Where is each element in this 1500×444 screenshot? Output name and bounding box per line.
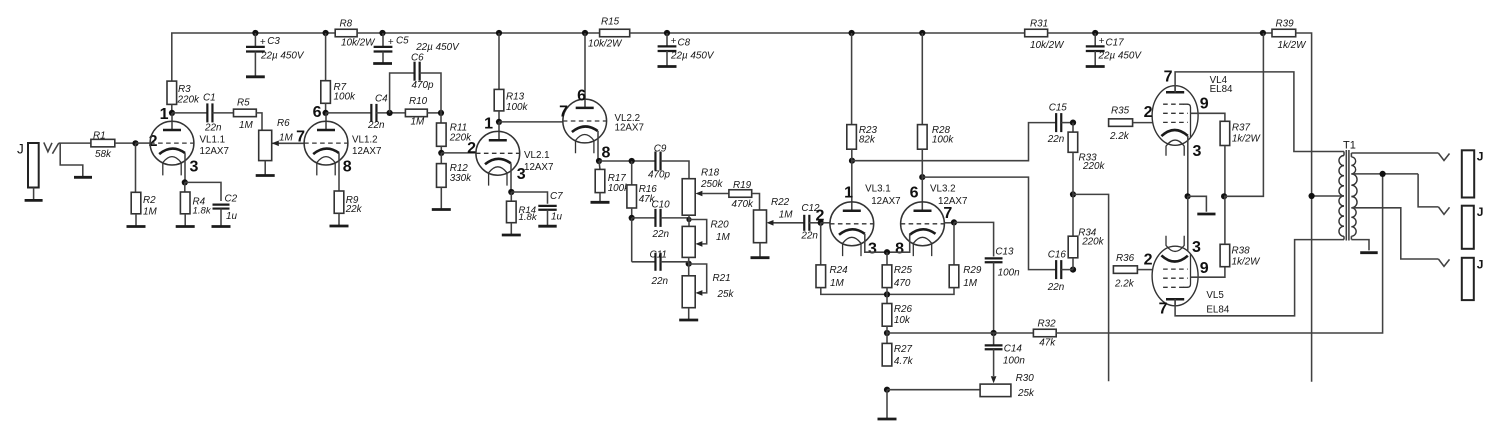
ground under R14 [502, 223, 521, 235]
svg-text:1k/2W: 1k/2W [1278, 40, 1308, 51]
svg-text:R21: R21 [713, 273, 731, 284]
resistor R37 [1220, 121, 1261, 145]
svg-text:J: J [1477, 257, 1484, 271]
svg-text:220k: 220k [1081, 236, 1104, 247]
svg-text:470p: 470p [648, 170, 670, 181]
triode VL1.1 [150, 113, 229, 175]
svg-text:7: 7 [1164, 69, 1173, 86]
capacitor C10 [632, 199, 670, 240]
wire cathode to C2 [185, 182, 221, 201]
pin 7 label VL5 [1159, 301, 1168, 318]
svg-text:C8: C8 [678, 37, 691, 48]
svg-text:R26: R26 [894, 304, 913, 315]
resistor R29 [949, 222, 982, 288]
svg-text:EL84: EL84 [1210, 84, 1233, 95]
wiper R22 to C12 [767, 220, 805, 226]
wire secondary tap 1 [1351, 173, 1418, 175]
wire node6 to C4 [326, 112, 372, 114]
wire R36 to VL5 grid [1137, 269, 1152, 271]
wiper R18 to R19 [695, 191, 729, 197]
svg-text:R35: R35 [1111, 105, 1130, 116]
svg-text:22µ 450V: 22µ 450V [260, 51, 305, 62]
svg-text:1M: 1M [963, 278, 977, 289]
svg-text:C6: C6 [411, 53, 424, 64]
node rail C17 [1092, 30, 1098, 36]
node rail R13 [496, 30, 502, 36]
wire rail segment 4 [1048, 32, 1272, 34]
resistor R16 [627, 161, 657, 208]
svg-text:100n: 100n [998, 268, 1020, 279]
resistor R2 [131, 143, 157, 217]
node rail screens feed [1260, 30, 1266, 36]
wire VL1.2 cathode [338, 153, 340, 191]
capacitor C11 [632, 249, 669, 287]
wire C13 to feedback node [993, 262, 995, 333]
svg-text:VL5: VL5 [1206, 290, 1224, 301]
resistor R31 (rail series) [1025, 18, 1065, 51]
triode VL1.2 [304, 113, 381, 175]
node rail R23 [849, 30, 855, 36]
jack sleeve wire to ground [60, 144, 83, 177]
resistor R7 [321, 33, 356, 113]
ground under C7 [538, 210, 556, 227]
ground under R17 [591, 193, 610, 203]
wire C4 to R10 junction [376, 112, 405, 114]
node 2 (VL3.1 grid) [816, 208, 825, 226]
node 1 (VL2.1 plate) [484, 116, 502, 133]
svg-text:6: 6 [910, 185, 919, 202]
svg-text:3: 3 [190, 159, 199, 176]
svg-text:C1: C1 [203, 92, 216, 103]
svg-text:10k/2W: 10k/2W [341, 38, 376, 49]
wire R1 to node 2 [115, 142, 136, 144]
tail bus wire [821, 288, 954, 295]
svg-text:25k: 25k [1017, 388, 1035, 399]
svg-text:1k/2W: 1k/2W [1232, 256, 1262, 267]
transformer T1 secondary winding [1351, 153, 1357, 240]
node C10/R18/R20 [686, 217, 691, 222]
svg-text:VL2.1: VL2.1 [524, 150, 550, 161]
node C9/R16 [629, 158, 635, 164]
wire C6 right leg [420, 73, 441, 113]
svg-text:100k: 100k [932, 134, 954, 145]
pin 8 label VL1.2 [343, 159, 352, 176]
divider stub wire (dead end) [1073, 194, 1109, 381]
wire VL4 plate to T1 primary top [1175, 72, 1344, 152]
svg-text:12AX7: 12AX7 [871, 196, 900, 207]
triode VL3.2 [901, 149, 968, 256]
svg-text:VL1.1: VL1.1 [200, 135, 226, 146]
wire R39 to T1 center tap [1296, 33, 1312, 382]
resistor R17 [595, 161, 630, 194]
svg-text:R3: R3 [178, 84, 191, 95]
pin 3 label VL4 [1193, 143, 1202, 160]
wire node2 to VL3.1 grid [821, 222, 830, 224]
wire R37 to junction [1224, 146, 1226, 197]
ground under C17 [1086, 65, 1105, 68]
pin 6 label VL2.2 [577, 88, 586, 105]
svg-text:82k: 82k [859, 134, 876, 145]
node R20/R21/C11 [686, 261, 692, 267]
feedback wire R32 to secondary tap [1056, 174, 1382, 333]
capacitor C7 [538, 191, 563, 223]
svg-text:C4: C4 [375, 94, 388, 105]
svg-text:C13: C13 [995, 247, 1014, 258]
node C10 left [629, 215, 635, 221]
svg-text:VL3.1: VL3.1 [865, 184, 891, 195]
wiper R21 return [689, 264, 707, 296]
svg-text:22µ 450V: 22µ 450V [670, 51, 715, 62]
resistor R5 [234, 97, 257, 131]
output jack 2 contact [1438, 207, 1449, 214]
resistor R13 [494, 33, 528, 122]
wire VL1.1 cathode [184, 153, 186, 182]
svg-text:2.2k: 2.2k [1114, 278, 1135, 289]
node VL2.1 cathode [508, 189, 514, 195]
resistor R25 [882, 252, 912, 289]
svg-text:220k: 220k [1082, 161, 1105, 172]
wire VL5 cathode up [1187, 196, 1189, 251]
svg-text:470p: 470p [412, 80, 434, 91]
ground under R2 [127, 214, 146, 227]
resistor R28 [918, 33, 955, 149]
output jack 2 connector [1462, 205, 1484, 249]
node rail R28 [919, 30, 925, 36]
wire VL2.2 cathode [597, 131, 599, 161]
svg-text:R31: R31 [1030, 18, 1048, 29]
node VL4/VL5 cathodes [1185, 193, 1191, 199]
pin 9 label VL5 [1200, 260, 1209, 277]
resistor R10 [405, 96, 427, 128]
svg-text:10k/2W: 10k/2W [588, 38, 623, 49]
capacitor C15 [1047, 102, 1068, 145]
ground at secondary [1360, 251, 1378, 254]
wire C16 to R36 node [1061, 269, 1073, 271]
svg-text:12AX7: 12AX7 [615, 122, 644, 133]
svg-text:22n: 22n [367, 120, 385, 131]
svg-text:C7: C7 [550, 191, 563, 202]
ground under R9 [330, 213, 349, 226]
node 1 (VL1.1 plate) [160, 106, 176, 123]
node rail C5 [379, 30, 385, 36]
pin 7 label VL1.2 [296, 129, 305, 146]
resistor R19 [729, 180, 754, 210]
resistor R34 [1068, 194, 1104, 257]
resistor R14 [507, 192, 538, 223]
svg-text:6: 6 [313, 104, 322, 121]
pin 2 label VL5 [1144, 252, 1153, 269]
svg-text:3: 3 [1192, 239, 1201, 256]
wire jack to R1 [59, 142, 91, 144]
output jack 3 connector [1462, 257, 1484, 300]
wire secondary bottom to ground [1351, 240, 1369, 251]
wire R5 to R6 top [256, 113, 262, 130]
svg-text:1.8k: 1.8k [519, 212, 538, 223]
transformer T1 core [1346, 150, 1349, 241]
wire rail segment 2 [357, 32, 599, 34]
ground at power cathodes [1197, 213, 1215, 216]
wire R19 to R22 top [752, 194, 760, 211]
svg-text:R6: R6 [277, 118, 290, 129]
wire R35 to VL4 grid [1133, 122, 1153, 124]
wire C6 left leg [390, 73, 415, 113]
resistor R36 [1113, 253, 1137, 289]
svg-text:8: 8 [602, 145, 611, 162]
resistor R39 (rail series) [1272, 18, 1307, 51]
svg-text:C14: C14 [1004, 343, 1023, 354]
wire VL3.2 grid to node [945, 222, 955, 224]
capacitor C3 (electrolytic) [246, 33, 305, 77]
wire C15 to R35 node [1061, 122, 1073, 124]
svg-text:R32: R32 [1038, 319, 1057, 330]
wire C9 to R18 [661, 161, 690, 179]
svg-text:7: 7 [296, 129, 305, 146]
svg-text:1u: 1u [551, 211, 562, 222]
svg-text:R38: R38 [1232, 245, 1251, 256]
wire VL2.1 plate to VL2.2 grid [499, 121, 563, 123]
capacitor C2 [213, 193, 238, 222]
svg-text:C11: C11 [650, 249, 667, 260]
resistor R8 (rail series) [335, 18, 376, 48]
svg-text:22µ 450V: 22µ 450V [1098, 51, 1143, 62]
svg-text:1M: 1M [830, 278, 844, 289]
node R28/C16 wire [919, 174, 925, 180]
resistor R3 [167, 81, 200, 113]
svg-text:9: 9 [1200, 96, 1209, 113]
resistor R24 [816, 223, 848, 289]
svg-text:J: J [1477, 150, 1484, 164]
svg-text:22n: 22n [204, 122, 222, 133]
pin 7 label VL4 [1164, 69, 1173, 86]
wire R16 to C10 node [631, 208, 633, 218]
ground under R6 [256, 161, 275, 176]
svg-text:250k: 250k [700, 179, 723, 190]
capacitor C6 [411, 53, 434, 92]
svg-text:EL84: EL84 [1206, 305, 1229, 316]
svg-text:22µ 450V: 22µ 450V [415, 42, 460, 53]
pin 9 label VL4 [1200, 96, 1209, 113]
output jack 3 contact [1438, 259, 1449, 266]
pin 7 label VL3.2 [943, 205, 952, 222]
svg-text:R39: R39 [1276, 18, 1295, 29]
ground under input jack [25, 188, 43, 201]
svg-text:1k/2W: 1k/2W [1232, 133, 1262, 144]
resistor R1 [91, 130, 115, 160]
svg-text:470k: 470k [732, 199, 754, 210]
pin 3 label VL5 [1192, 239, 1201, 256]
svg-text:3: 3 [1193, 143, 1202, 160]
wiper R20 return [689, 220, 707, 247]
svg-text:VL1.2: VL1.2 [352, 135, 378, 146]
svg-text:J: J [17, 142, 24, 157]
pin 2 label VL2.1 [467, 140, 476, 157]
svg-text:2: 2 [467, 140, 476, 157]
svg-text:T1: T1 [1343, 139, 1356, 151]
svg-text:12AX7: 12AX7 [524, 162, 553, 173]
svg-text:R36: R36 [1116, 253, 1135, 264]
pin 2 label VL4 [1144, 104, 1153, 121]
wire R23 node to C15 [852, 123, 1056, 161]
svg-text:58k: 58k [95, 149, 112, 160]
output jack 1 contact [1438, 153, 1449, 160]
svg-text:10k/2W: 10k/2W [1030, 40, 1065, 51]
resistor R32 [1033, 319, 1056, 349]
svg-text:R22: R22 [771, 197, 790, 208]
svg-text:12AX7: 12AX7 [352, 146, 381, 157]
node 2 (VL1.1 grid) [132, 133, 157, 150]
pin 6 label VL3.2 [910, 185, 919, 202]
node VL2.2 cathode [596, 158, 602, 164]
svg-text:R18: R18 [701, 167, 720, 178]
svg-text:R29: R29 [963, 265, 982, 276]
node rail VL2.2 plate [582, 30, 588, 36]
capacitor C4 [367, 94, 388, 131]
svg-text:R20: R20 [711, 219, 730, 230]
svg-text:R8: R8 [340, 18, 353, 29]
svg-text:1: 1 [844, 185, 853, 202]
svg-text:+: + [260, 37, 266, 48]
node R37/R38 screens [1221, 193, 1227, 199]
wire secondary top to jack 1 [1351, 152, 1438, 154]
svg-text:R2: R2 [143, 195, 156, 206]
wire cathode to tone stack [599, 160, 656, 162]
node C4/R10/C6-left [387, 110, 393, 116]
wiper arrow C14 into R30 [991, 349, 997, 383]
wire C1 to R5 [212, 112, 233, 114]
svg-text:3: 3 [868, 241, 877, 258]
pin 8 label VL3.2 [895, 241, 904, 258]
wire T1 center tap [1312, 195, 1344, 197]
resistor R15 (rail series) [588, 16, 630, 49]
resistor R9 [334, 191, 362, 215]
svg-text:22n: 22n [651, 276, 669, 287]
node R33/R34 divider [1070, 152, 1076, 197]
wire node1 to C1 [172, 112, 207, 114]
svg-text:C9: C9 [654, 143, 667, 154]
capacitor C1 [203, 92, 222, 133]
node R34/C16/R36 [1070, 258, 1076, 273]
svg-text:+: + [671, 36, 677, 47]
ground under R21 [679, 308, 698, 320]
wire to R30 [887, 389, 980, 391]
output jack 1 connector [1462, 150, 1484, 198]
svg-text:R1: R1 [93, 130, 106, 141]
wire B+ rail segment 1 [172, 33, 335, 81]
svg-text:47k: 47k [1039, 338, 1056, 349]
capacitor C12 [800, 203, 820, 242]
potentiometer R6 [259, 118, 294, 161]
wire VL4 pin9 to R37 [1191, 113, 1225, 121]
svg-text:7: 7 [943, 205, 952, 222]
svg-text:7: 7 [559, 104, 568, 121]
node R23/C15 wire [849, 158, 855, 164]
wire secondary tap 2 to jack 3 [1351, 208, 1438, 259]
jack tip contact [44, 142, 59, 153]
node C15/R33/R35 [1070, 120, 1076, 126]
node 3 cathode VL1.1 [182, 179, 188, 185]
ground under C8 [658, 65, 677, 68]
wire cathodes to ground [1188, 196, 1207, 212]
resistor R4 [180, 182, 211, 216]
svg-text:R19: R19 [733, 180, 752, 191]
pin 7 label VL2.2 [559, 104, 568, 121]
svg-text:1M: 1M [716, 232, 730, 243]
resistor R27 [882, 326, 913, 367]
input jack J connector [17, 142, 39, 188]
svg-text:22n: 22n [800, 231, 818, 242]
svg-text:8: 8 [895, 241, 904, 258]
capacitor C17 (electrolytic) [1086, 33, 1143, 67]
potentiometer R20 [682, 215, 730, 257]
wire R28 node to C16 [922, 177, 1056, 270]
svg-text:6: 6 [577, 88, 586, 105]
svg-text:R10: R10 [409, 96, 428, 107]
svg-text:+: + [1099, 36, 1105, 47]
wire screens to rail [1224, 33, 1263, 196]
node secondary tap 1 (feedback) [1380, 171, 1386, 177]
svg-text:+: + [388, 37, 394, 48]
svg-text:4.7k: 4.7k [894, 356, 914, 367]
svg-text:1.8k: 1.8k [193, 205, 212, 216]
wire VL5 pin9 to R38 [1191, 267, 1225, 278]
wire R11/R12 node to VL2.1 grid [441, 152, 476, 154]
svg-text:220k: 220k [177, 95, 200, 106]
node C13/C14/R32 [991, 330, 997, 336]
svg-text:9: 9 [1200, 260, 1209, 277]
node R27/R30 wire [884, 387, 890, 393]
node R10/R11/C6-right [438, 110, 444, 116]
pin 3 label VL2.1 [517, 166, 526, 183]
svg-text:10k: 10k [894, 315, 911, 326]
capacitor C5 (electrolytic) [374, 33, 460, 64]
node VL3.2 grid / R29 / C13 [951, 219, 957, 225]
ground under R22 [751, 243, 770, 258]
transformer T1 primary winding [1339, 139, 1356, 239]
capacitor C8 (electrolytic) [658, 33, 715, 67]
potentiometer R21 [682, 257, 734, 307]
capacitor C13 [985, 247, 1020, 279]
capacitor C9 [648, 143, 670, 180]
ground under R27 [878, 390, 897, 419]
node R11/R12 (VL2.1 grid) [438, 150, 444, 156]
ground under C3 [246, 75, 265, 78]
svg-text:R24: R24 [830, 265, 849, 276]
pin 1 label VL3.1 [844, 185, 853, 202]
svg-text:1M: 1M [779, 209, 793, 220]
node R26/R27/feedback [884, 330, 890, 336]
feedback wire R26 to R32 [887, 332, 1033, 334]
svg-text:2: 2 [1144, 104, 1153, 121]
wire VL5 plate to T1 primary bottom [1175, 240, 1344, 316]
potentiometer R30 (presence) [980, 373, 1035, 399]
resistor R11 [437, 113, 473, 153]
wire C11 left leg [631, 218, 633, 262]
node rail C8 [664, 30, 670, 36]
svg-text:100k: 100k [506, 102, 528, 113]
svg-text:7: 7 [1159, 301, 1168, 318]
pentode VL4 (EL84) [1152, 75, 1233, 156]
pentode VL5 (EL84, inverted) [1152, 236, 1230, 316]
svg-text:1M: 1M [411, 117, 425, 128]
svg-text:1: 1 [484, 116, 493, 133]
svg-text:R27: R27 [894, 344, 913, 355]
node 6 (VL1.2 plate) [313, 104, 329, 121]
wire VL2.1 cathode [510, 163, 512, 192]
wiper wire R6 to VL1.2 grid [272, 141, 304, 147]
pin 8 label VL2.2 [602, 145, 611, 162]
svg-text:12AX7: 12AX7 [200, 146, 229, 157]
svg-text:C2: C2 [225, 193, 238, 204]
